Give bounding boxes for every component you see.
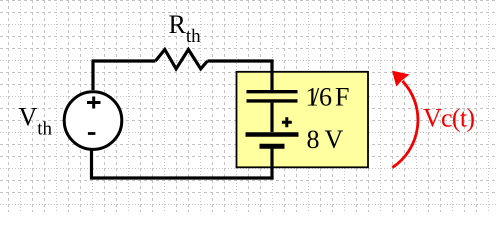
battery polarity +: [282, 117, 292, 127]
voltage source Vth (circle): [64, 92, 122, 150]
wire: resistor to top-right corner node B: [208, 59, 274, 62]
wire: bottom rail: [92, 176, 274, 179]
red arrow arc for Vc(t): [392, 81, 418, 168]
wire: top-left vertical from node A down to source Vth: [91, 61, 94, 90]
wire: battery bottom down to bottom rail: [270, 149, 273, 180]
wire: top horizontal from node A to resistor: [92, 59, 156, 62]
voltage source polarity +: [87, 97, 101, 109]
voltage source polarity -: [88, 132, 96, 135]
wire: bottom-left vertical up to source Vth: [90, 150, 93, 180]
highlight box around capacitor and battery: [237, 72, 369, 168]
capacitor C 1/6 F : top plate: [247, 90, 298, 93]
red arrowhead: [392, 71, 410, 87]
svg-text:Vc(t): Vc(t): [423, 103, 475, 132]
battery 8 V : long (positive) plate: [246, 132, 299, 137]
wire: capacitor bottom plate to battery top: [270, 103, 273, 132]
capacitor C 1/6 F : bottom plate: [247, 99, 298, 102]
wire: right vertical from node B down to capacitor: [270, 60, 273, 91]
svg-text:8: 8: [307, 125, 320, 154]
battery 8 V : short (negative) plate: [260, 144, 285, 149]
svg-text:V: V: [325, 125, 344, 154]
svg-text:1/6F: 1/6F: [306, 82, 350, 111]
resistor Rth: [155, 50, 207, 69]
